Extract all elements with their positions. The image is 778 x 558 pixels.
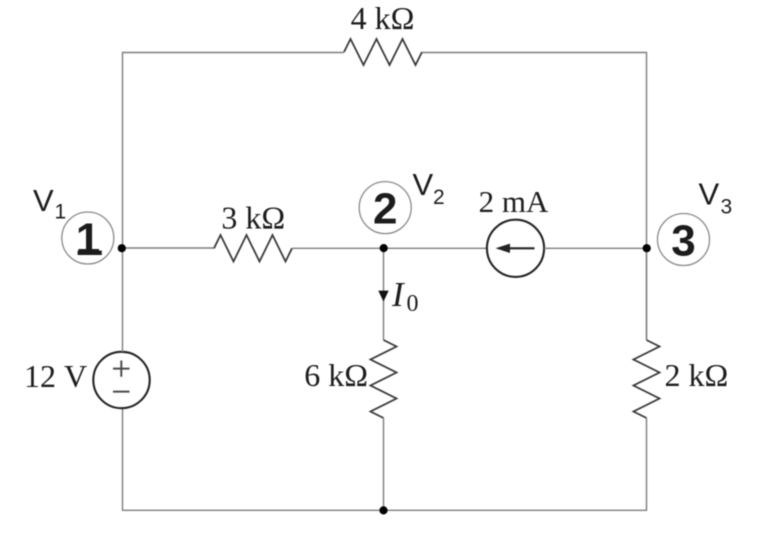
junction dot node 1 [118,244,126,252]
svg-text:V: V [413,167,434,202]
wire: top rail right segment (4k resistor to top-right corner, down right rail) [422,53,647,341]
node circle 1 [62,212,114,264]
wire: right rail node3 down to 2k resistor [646,248,648,340]
wire: center vertical node2 down to 6k resistor [383,248,385,340]
svg-text:4 kΩ: 4 kΩ [351,0,415,36]
wire: mid rail 3k resistor to node2 to current source [292,247,487,249]
label 6 kOhm [304,357,368,393]
resistor R 3kOhm (middle, horizontal zigzag) [214,235,292,262]
label V2 [413,167,445,209]
svg-text:3: 3 [721,196,733,219]
svg-text:12 V: 12 V [24,358,87,394]
label 12 V [24,358,87,394]
svg-text:1: 1 [55,201,67,224]
junction dot node 3 [643,244,651,252]
label 3 kOhm [221,200,285,236]
current arrow I0 (downward on center vertical wire) [378,291,388,302]
wire: top rail left segment (top-left corner to 4k resistor) [123,53,345,249]
svg-text:2 kΩ: 2 kΩ [665,357,729,393]
label 4 kOhm [351,0,415,36]
resistor R 6kOhm (center, vertical zigzag) [371,340,397,418]
svg-text:6 kΩ: 6 kΩ [304,357,368,393]
svg-text:2 mA: 2 mA [479,184,549,219]
wire: mid rail node1 to 3k resistor [123,247,215,249]
svg-text:3 kΩ: 3 kΩ [221,200,285,236]
svg-text:1: 1 [76,215,100,264]
label 2 mA [479,184,549,219]
junction dot bottom center [379,506,387,514]
label V1 [33,183,66,224]
wire: mid rail current source to node3 [544,247,646,249]
wire: right rail 2k resistor to bottom-right corner [384,418,647,510]
svg-text:2: 2 [433,186,445,209]
resistor R 4kOhm (top, horizontal zigzag) [344,39,422,65]
svg-text:2: 2 [373,185,397,234]
node circle 3 [658,214,710,266]
svg-text:V: V [699,177,720,212]
node circle 2 [359,182,411,234]
svg-text:V: V [33,183,54,218]
wire: center vertical 6k resistor to bottom rail [383,418,385,510]
current source I 2mA (circle with left arrow) [487,220,544,277]
label I0 [391,275,419,317]
wire: left rail node1 down to voltage source [122,248,124,352]
wire: bottom rail (bottom-left corner to bottom-center node) [123,408,384,510]
label 2 kOhm [665,357,729,393]
svg-text:0: 0 [407,291,419,317]
junction dot node 2 [380,244,388,252]
resistor R 2kOhm (right, vertical zigzag) [634,340,660,418]
svg-text:I: I [391,275,406,314]
voltage source 12V (circle with plus minus) [93,352,149,408]
label V3 [699,177,733,219]
svg-text:3: 3 [671,217,695,266]
